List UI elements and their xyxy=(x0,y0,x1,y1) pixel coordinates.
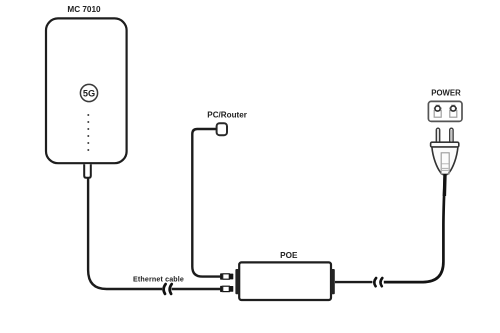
device MC7010 body xyxy=(46,18,127,163)
POE left end bracket xyxy=(235,269,239,294)
wall outlet xyxy=(428,101,462,121)
plug body inner detail xyxy=(441,153,449,174)
cable break mark left pair xyxy=(164,284,166,294)
wire device to POE (right segment after break) xyxy=(172,288,221,290)
svg-text:PC/Router: PC/Router xyxy=(207,111,247,120)
LED indicator dots xyxy=(87,114,89,151)
plug cap xyxy=(431,142,459,147)
svg-text:POE: POE xyxy=(280,251,298,260)
plug left prong xyxy=(436,128,439,143)
power cable break to plug xyxy=(384,175,445,283)
power cord below plug xyxy=(443,174,447,196)
plug body xyxy=(432,147,458,175)
outlet left socket xyxy=(434,105,442,118)
PC/Router connector xyxy=(217,123,227,135)
5G logo circle xyxy=(80,84,97,101)
outlet right socket xyxy=(450,105,458,118)
svg-text:MC 7010: MC 7010 xyxy=(67,5,101,14)
POE lower input connector (RJ45 plug) xyxy=(220,286,233,292)
POE injector box xyxy=(239,262,331,300)
wire device to POE (left segment) xyxy=(88,178,162,289)
svg-text:5G: 5G xyxy=(83,88,95,98)
cable break mark right pair xyxy=(374,278,376,286)
power cable POE to break xyxy=(335,281,373,283)
wire PC/Router to POE xyxy=(192,129,220,277)
svg-text:POWER: POWER xyxy=(431,88,461,97)
svg-text:Ethernet cable: Ethernet cable xyxy=(133,276,184,284)
device USB connector plug xyxy=(84,164,91,178)
POE right end bracket xyxy=(331,269,335,294)
plug right prong xyxy=(450,128,453,143)
POE upper input connector (RJ45 plug) xyxy=(220,273,233,279)
